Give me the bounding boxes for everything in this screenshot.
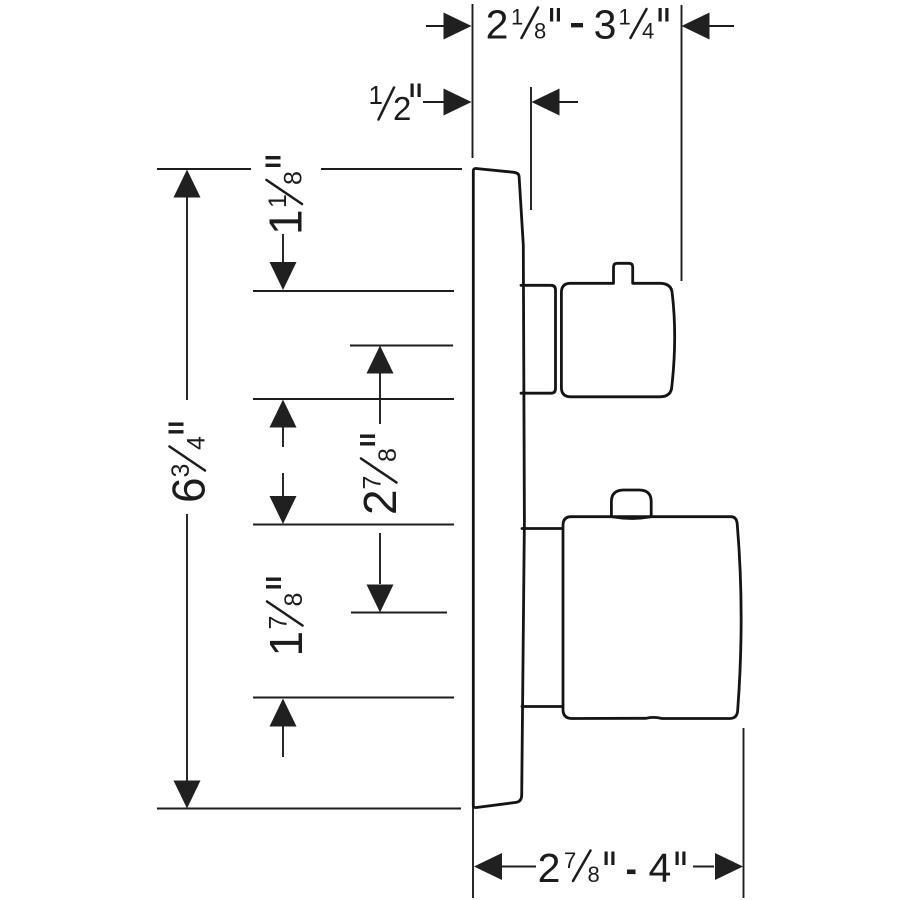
svg-text:4: 4 <box>642 19 654 44</box>
svg-text:3: 3 <box>594 2 617 48</box>
svg-text:3: 3 <box>167 464 195 478</box>
svg-text:4: 4 <box>183 436 211 450</box>
svg-text:7: 7 <box>359 476 387 490</box>
svg-text:1: 1 <box>260 209 312 235</box>
svg-text:8: 8 <box>374 448 402 462</box>
svg-text:8: 8 <box>280 171 308 185</box>
svg-text:1: 1 <box>511 5 523 30</box>
svg-text:8: 8 <box>280 593 308 607</box>
svg-text:7: 7 <box>265 616 293 630</box>
svg-text:8: 8 <box>534 19 546 44</box>
svg-text:4: 4 <box>649 845 672 891</box>
svg-text:2: 2 <box>538 845 561 891</box>
svg-text:1: 1 <box>264 194 292 208</box>
svg-text:7: 7 <box>564 848 576 873</box>
svg-text:8: 8 <box>588 862 600 887</box>
svg-text:2: 2 <box>393 90 411 127</box>
svg-text:2: 2 <box>354 489 406 515</box>
svg-text:1: 1 <box>260 631 312 657</box>
svg-text:6: 6 <box>163 477 215 503</box>
svg-text:1: 1 <box>369 80 383 110</box>
svg-text:2: 2 <box>486 2 509 48</box>
svg-text:1: 1 <box>619 5 631 30</box>
